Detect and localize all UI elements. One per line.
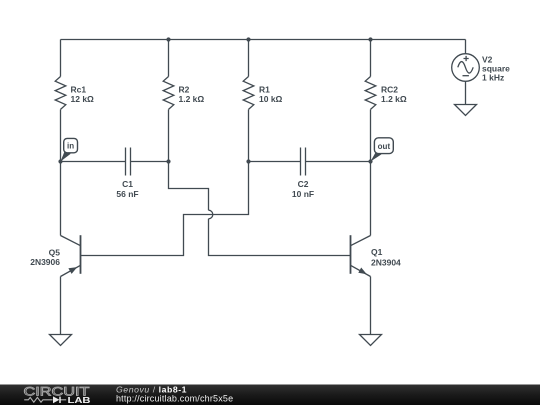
svg-text:2N3906: 2N3906 bbox=[30, 257, 60, 267]
svg-text:RC2: RC2 bbox=[381, 84, 398, 94]
svg-text:2N3904: 2N3904 bbox=[371, 257, 401, 267]
svg-text:C1: C1 bbox=[122, 179, 133, 189]
svg-text:12 kΩ: 12 kΩ bbox=[71, 94, 95, 104]
svg-text:in: in bbox=[67, 142, 74, 151]
svg-text:LAB: LAB bbox=[68, 396, 91, 405]
svg-text:R1: R1 bbox=[259, 84, 270, 94]
svg-text:10 kΩ: 10 kΩ bbox=[259, 94, 283, 104]
svg-text:out: out bbox=[378, 142, 391, 151]
svg-text:1 kHz: 1 kHz bbox=[482, 73, 504, 83]
svg-text:10 nF: 10 nF bbox=[292, 189, 314, 199]
svg-text:56 nF: 56 nF bbox=[116, 189, 138, 199]
svg-text:C2: C2 bbox=[298, 179, 309, 189]
svg-text:R2: R2 bbox=[179, 84, 190, 94]
svg-text:http://circuitlab.com/chr5x5e: http://circuitlab.com/chr5x5e bbox=[116, 394, 233, 404]
svg-text:1.2 kΩ: 1.2 kΩ bbox=[381, 94, 407, 104]
svg-text:Q1: Q1 bbox=[371, 247, 383, 257]
svg-text:1.2 kΩ: 1.2 kΩ bbox=[179, 94, 205, 104]
svg-text:Rc1: Rc1 bbox=[71, 84, 87, 94]
